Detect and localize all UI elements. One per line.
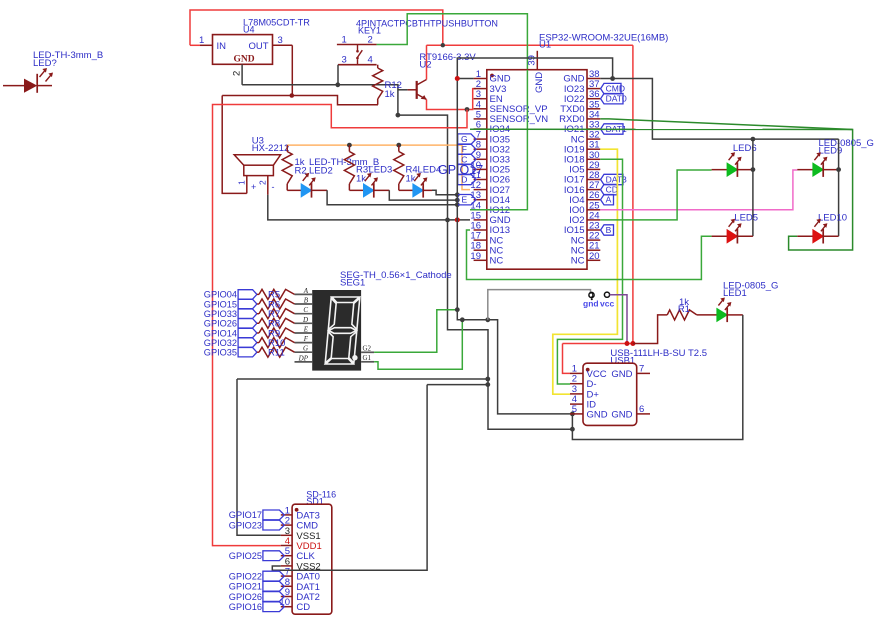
svg-text:C: C bbox=[461, 154, 467, 164]
resistor R7 1k bbox=[257, 309, 295, 320]
net flag GPIO21 at SD1 bbox=[229, 581, 285, 591]
svg-text:5: 5 bbox=[572, 404, 577, 415]
resistor R1 1k bbox=[633, 297, 717, 344]
svg-text:OUT: OUT bbox=[249, 41, 269, 52]
svg-text:DP: DP bbox=[298, 354, 309, 362]
svg-text:GPIO35: GPIO35 bbox=[204, 348, 237, 358]
svg-text:LED3: LED3 bbox=[369, 165, 393, 176]
junction GND corner bbox=[396, 113, 401, 118]
svg-text:2: 2 bbox=[232, 71, 243, 76]
svg-text:NC: NC bbox=[571, 256, 585, 267]
junction GND LED6 branch bbox=[751, 137, 756, 142]
SD1 pin 2 CMD bbox=[281, 516, 318, 532]
SD1 pin 5 CLK bbox=[281, 546, 316, 562]
pushbutton KEY1 symbol bbox=[337, 35, 377, 66]
net flag GPIO04 bbox=[204, 290, 257, 300]
junction GND at speaker run bbox=[445, 218, 450, 223]
connector USB1 body bbox=[583, 363, 637, 425]
junction GND rail1 bbox=[485, 377, 490, 382]
U1 pin 33 IO21 bbox=[564, 120, 600, 136]
net flag GPIO16 at SD1 bbox=[229, 602, 285, 612]
USB1 pin 1 VCC bbox=[570, 363, 607, 380]
svg-text:R2: R2 bbox=[295, 166, 307, 177]
svg-text:F: F bbox=[303, 335, 309, 343]
wire speaker pin2 to GND / ESP32 pin15 bbox=[268, 195, 470, 220]
net flag A pin26 bbox=[601, 195, 614, 205]
U1 pin 15 GND bbox=[470, 210, 510, 226]
U1 pin 30 IO18 bbox=[564, 150, 600, 166]
svg-text:CD: CD bbox=[606, 185, 618, 195]
wire SEG1 G2 to GND bbox=[374, 310, 457, 353]
U1 pin 38 GND bbox=[563, 69, 600, 85]
svg-text:39: 39 bbox=[527, 55, 538, 66]
svg-text:GND: GND bbox=[611, 409, 632, 420]
net flag GPIO17 pin10 bbox=[458, 164, 476, 174]
junction LED3 GND bbox=[455, 198, 460, 203]
net flag GPIO32 bbox=[204, 338, 257, 348]
USB1 pin1 indicator dot bbox=[586, 368, 590, 372]
U1 pin 3 EN bbox=[474, 89, 503, 105]
svg-text:R1: R1 bbox=[678, 304, 690, 315]
net flag C pin9 bbox=[458, 154, 476, 164]
wire IO27 orange to LED resistors bbox=[287, 145, 470, 190]
junction GND bottom rail bbox=[570, 427, 575, 432]
speaker U3 symbol bbox=[234, 155, 280, 195]
U1 pin 1 GND bbox=[474, 69, 511, 85]
svg-text:U2: U2 bbox=[419, 60, 431, 71]
resistor R3 1k bbox=[344, 145, 368, 190]
wire +5V from U4 OUT to R12 bbox=[222, 96, 378, 105]
junction +5V rail bbox=[441, 43, 445, 47]
svg-text:GPIO23: GPIO23 bbox=[229, 520, 262, 530]
net flag GPIO33 bbox=[204, 309, 257, 319]
svg-text:DAT3: DAT3 bbox=[606, 175, 627, 185]
svg-text:1k: 1k bbox=[356, 174, 366, 185]
wire GND LED6/LED5 vertical bbox=[752, 139, 754, 236]
wire U2 emitter to 3V3 / ESP32 pin2 bbox=[427, 89, 477, 110]
net flag G pin7 bbox=[458, 134, 476, 144]
junction orange R4 bbox=[396, 143, 401, 148]
net flag F pin8 bbox=[458, 144, 476, 154]
U1 pin 36 IO22 bbox=[564, 89, 600, 105]
LED LED6 bbox=[712, 152, 753, 177]
svg-text:GND: GND bbox=[534, 72, 545, 93]
U1 pin 14 IO12 bbox=[470, 200, 510, 216]
resistor R10 1k bbox=[257, 338, 295, 349]
resistor R12 1k bbox=[373, 65, 402, 105]
wire GND down to SD VSS2 bbox=[272, 385, 427, 571]
USB1 pin 5 GND bbox=[570, 404, 608, 421]
junction GND USB pin5 bbox=[570, 412, 575, 417]
svg-text:-: - bbox=[272, 182, 275, 192]
svg-text:R11: R11 bbox=[268, 348, 285, 359]
resistor R8 1k bbox=[257, 318, 295, 329]
wire LED3 cathode to GND bbox=[389, 190, 457, 200]
net flag DAT1 pin33 bbox=[601, 124, 627, 134]
svg-text:GND: GND bbox=[611, 369, 632, 380]
junction GND pin38 bbox=[610, 76, 615, 81]
svg-text:A: A bbox=[303, 287, 309, 295]
net flag GPIO17 at SD1 bbox=[229, 510, 285, 520]
svg-text:GPIO15: GPIO15 bbox=[204, 299, 237, 309]
svg-text:1: 1 bbox=[342, 35, 347, 46]
U1 pin 24 IO2 bbox=[569, 210, 600, 226]
svg-text:2: 2 bbox=[368, 35, 373, 46]
U1 pin 32 NC bbox=[571, 130, 601, 146]
svg-text:C: C bbox=[303, 306, 308, 314]
net flag GPIO25 at SD1 bbox=[229, 551, 285, 561]
U1 pin 22 NC bbox=[571, 231, 601, 247]
LED LED9 bbox=[797, 152, 838, 177]
svg-text:3: 3 bbox=[278, 35, 283, 46]
svg-text:LED10: LED10 bbox=[818, 213, 847, 224]
U1 pin 18 NC bbox=[470, 241, 503, 257]
wire GND down to SD VSS1 bbox=[237, 379, 281, 535]
net flag DAT0 pin36 bbox=[601, 94, 627, 104]
SD1 pin 8 DAT1 bbox=[281, 577, 320, 593]
wire vcc purple to USB VCC bbox=[610, 295, 627, 344]
svg-text:G: G bbox=[303, 345, 308, 353]
USB1 pin 3 D+ bbox=[570, 384, 599, 401]
svg-text:NC: NC bbox=[490, 256, 504, 267]
svg-text:19: 19 bbox=[470, 251, 481, 262]
svg-text:GND: GND bbox=[234, 55, 255, 65]
svg-text:G: G bbox=[461, 134, 468, 144]
SEG1 pin E bbox=[295, 326, 313, 334]
wire 3V3 to SD VDD1 bbox=[213, 105, 468, 546]
U1 pin 19 NC bbox=[470, 251, 503, 267]
USB1 pin 6 GND bbox=[611, 404, 650, 421]
svg-text:1: 1 bbox=[199, 35, 204, 46]
U1 pin 10 IO25 bbox=[470, 160, 510, 176]
SEG1 pin D bbox=[295, 316, 313, 324]
SEG1 pin DP bbox=[295, 354, 313, 362]
wire U4 OUT down bbox=[291, 45, 293, 95]
U1 pin 11 IO26 bbox=[471, 170, 510, 186]
svg-text:B: B bbox=[304, 297, 309, 305]
junction GND gray tap bbox=[485, 317, 490, 322]
svg-text:E: E bbox=[462, 195, 468, 205]
resistor R5 1k bbox=[257, 289, 295, 300]
LED LED? symbol bbox=[3, 68, 53, 93]
SD1 pin 9 DAT2 bbox=[281, 587, 320, 603]
wire GND rail to SD VSS1 bbox=[237, 378, 488, 380]
svg-text:GPIO16: GPIO16 bbox=[229, 602, 262, 612]
svg-text:CD: CD bbox=[296, 602, 310, 613]
svg-text:GPIO14: GPIO14 bbox=[204, 328, 237, 338]
junction G1 GND bbox=[460, 317, 465, 322]
net flag E pin13 bbox=[458, 195, 476, 205]
junction VCC red bbox=[630, 341, 635, 346]
net flag GPIO15 bbox=[204, 299, 257, 309]
U1 pin 9 IO33 bbox=[474, 150, 511, 166]
display SEG1 digit segments bbox=[325, 297, 360, 364]
wire IO18 pin30 green to USB D- bbox=[557, 159, 622, 384]
U1 pin 13 IO14 bbox=[470, 190, 510, 206]
net flag GPIO26 at SD1 bbox=[229, 592, 285, 602]
USB1 pin 7 GND bbox=[611, 363, 650, 380]
resistor R11 1k bbox=[257, 347, 295, 358]
wire LED2 cathode to GND bbox=[327, 190, 457, 204]
svg-text:GPIO32: GPIO32 bbox=[204, 338, 237, 348]
SD1 pin 6 VSS2 bbox=[281, 556, 321, 572]
SEG1 pin G1 bbox=[361, 354, 374, 362]
wire IO19 pin31 yellow to USB D+ bbox=[553, 149, 618, 394]
regulator U4 body bbox=[213, 35, 273, 65]
svg-text:U1: U1 bbox=[539, 40, 551, 51]
svg-text:GPIO22: GPIO22 bbox=[229, 571, 262, 581]
svg-text:LED2: LED2 bbox=[309, 166, 333, 177]
svg-text:CMD: CMD bbox=[606, 84, 625, 94]
net flag GPIO14 bbox=[204, 328, 257, 338]
junction LED6 cathode bbox=[751, 167, 756, 172]
svg-text:D: D bbox=[302, 316, 308, 324]
wire VCC to USB pin1 horizontal bbox=[563, 343, 633, 345]
svg-text:GPIO17: GPIO17 bbox=[229, 510, 262, 520]
SEG1 pin G bbox=[295, 345, 313, 353]
wire +5V top rail bbox=[190, 10, 443, 45]
svg-text:ESP32-WROOM-32UE(16MB): ESP32-WROOM-32UE(16MB) bbox=[539, 33, 668, 44]
U1 pin 17 NC bbox=[470, 231, 503, 247]
junction G2 GND bbox=[455, 307, 460, 312]
U1 pin 8 IO32 bbox=[474, 140, 511, 156]
transistor U2 symbol bbox=[399, 80, 427, 100]
SD1 pin 10 CD bbox=[279, 597, 310, 613]
wire GND pin38 to LED cathodes bbox=[600, 79, 838, 140]
junction GND pin15 red bbox=[455, 217, 460, 222]
resistor R2 1k bbox=[282, 145, 306, 190]
svg-text:G2: G2 bbox=[363, 344, 372, 352]
svg-text:GPIO21: GPIO21 bbox=[229, 582, 262, 592]
svg-text:IN: IN bbox=[217, 41, 227, 52]
wire GND main rail bbox=[242, 85, 572, 429]
wire GND rail to SD VSS2 bbox=[427, 384, 488, 386]
net flag CD pin27 bbox=[601, 184, 618, 194]
svg-text:4: 4 bbox=[368, 55, 373, 66]
net flag GPIO23 at SD1 bbox=[229, 520, 285, 530]
junction LED2 GND bbox=[455, 202, 460, 207]
svg-text:20: 20 bbox=[589, 251, 600, 262]
svg-text:LED1: LED1 bbox=[723, 288, 747, 299]
USB1 pin 2 D- bbox=[570, 374, 597, 391]
U1 pin 7 IO35 bbox=[474, 130, 511, 146]
svg-text:G1: G1 bbox=[363, 354, 372, 362]
wire U2 collector to +5V rail bbox=[426, 45, 428, 79]
wire IO0 pin25 pink to LED9 bbox=[600, 170, 797, 210]
svg-text:GND: GND bbox=[587, 409, 608, 420]
svg-text:DAT0: DAT0 bbox=[606, 94, 627, 104]
U1 pin 31 IO19 bbox=[564, 140, 600, 156]
testpoint gnd bbox=[583, 292, 599, 308]
svg-text:vcc: vcc bbox=[600, 299, 614, 309]
U1 pin 4 SENSOR_VP bbox=[474, 99, 548, 115]
U4 pin 3 OUT bbox=[249, 35, 293, 52]
svg-text:LED?: LED? bbox=[33, 58, 57, 69]
U1 pin 34 RXD0 bbox=[559, 109, 600, 125]
wire LED1 cathode to GND loop bbox=[572, 315, 742, 440]
wire GND testpoint gray bbox=[488, 290, 591, 320]
junction LED4 GND bbox=[455, 192, 460, 197]
svg-text:GPIO26: GPIO26 bbox=[229, 592, 262, 602]
U4 pin 2 GND lead bbox=[232, 64, 243, 85]
display SEG1 decimal point bbox=[352, 355, 357, 360]
wire ESP32 pin1 GND bbox=[457, 78, 473, 80]
svg-text:3: 3 bbox=[342, 55, 347, 66]
U1 pin 6 IO34 bbox=[474, 120, 511, 136]
svg-text:6: 6 bbox=[639, 404, 644, 415]
U1 pin 25 IO0 bbox=[569, 200, 600, 216]
svg-text:HX-2212: HX-2212 bbox=[252, 143, 289, 154]
display SEG1 body bbox=[312, 290, 361, 371]
testpoint vcc bbox=[600, 292, 614, 308]
svg-text:+: + bbox=[251, 182, 256, 192]
junction GND pin1 red bbox=[455, 76, 460, 81]
connector SD1 body bbox=[292, 504, 332, 614]
USB1 pin 4 ID bbox=[570, 394, 596, 411]
svg-text:E: E bbox=[303, 326, 309, 334]
resistor R4 1k bbox=[394, 145, 418, 190]
net flag GPIO35 bbox=[204, 348, 257, 358]
SEG1 pin C bbox=[295, 306, 313, 314]
svg-text:gnd: gnd bbox=[583, 299, 599, 309]
U1 pin 37 IO23 bbox=[564, 79, 600, 95]
wire KEY1 pin2 green to IO12 bbox=[377, 14, 528, 210]
wire GND to USB pin5 bbox=[457, 310, 570, 414]
wire KEY1 pin3 to GND bbox=[337, 65, 339, 85]
wire LED4 cathode to GND bbox=[432, 190, 457, 195]
svg-text:D: D bbox=[461, 175, 467, 185]
net flag B pin23 bbox=[601, 225, 614, 235]
U1 pin 26 IO4 bbox=[569, 190, 600, 206]
svg-text:1k: 1k bbox=[406, 174, 416, 185]
junction VCC purple bbox=[625, 341, 630, 346]
wire +5V to speaker pin1 bbox=[222, 96, 247, 194]
junction GND / KEY1 bbox=[335, 82, 340, 87]
U1 pin 35 TXD0 bbox=[560, 99, 600, 115]
wire VCC vertical right of ESP32 bbox=[632, 45, 634, 343]
junction +5V at U4 OUT bbox=[290, 93, 295, 98]
junction GND rail2 bbox=[485, 382, 490, 387]
U1 pin 28 IO17 bbox=[564, 170, 600, 186]
IC U1 body bbox=[487, 70, 587, 270]
U1 pin 2 3V3 bbox=[474, 79, 507, 95]
svg-text:GPIO04: GPIO04 bbox=[204, 290, 237, 300]
svg-text:GPIO33: GPIO33 bbox=[204, 309, 237, 319]
SD1 pin 1 DAT3 bbox=[281, 505, 320, 521]
U4 pin 1 IN bbox=[190, 35, 226, 52]
svg-text:U4: U4 bbox=[243, 25, 255, 35]
wire GND crossing SD1 to VSS2 rail bbox=[281, 569, 427, 571]
U1 pin 29 IO5 bbox=[569, 160, 600, 176]
svg-text:1k: 1k bbox=[385, 89, 395, 100]
SD1 pin 4 VDD1 bbox=[281, 536, 322, 552]
net flag GPIO22 at SD1 bbox=[229, 571, 285, 581]
wire IO34 pin6 long green bbox=[470, 128, 853, 130]
net flag GPIO26 bbox=[204, 319, 257, 329]
wire +5V horizontal to right bbox=[427, 44, 633, 46]
SD1 pin 7 DAT0 bbox=[281, 567, 320, 583]
junction orange R3 bbox=[347, 143, 352, 148]
U1 pin 21 NC bbox=[571, 241, 601, 257]
wire KEY1 green inside U1 to pin14 bbox=[470, 70, 527, 210]
svg-text:B: B bbox=[606, 225, 612, 235]
resistor R9 1k bbox=[257, 328, 295, 339]
SD1 pin1 indicator dot bbox=[295, 508, 299, 512]
SEG1 pin B bbox=[295, 297, 313, 305]
U1 pin 20 NC bbox=[571, 251, 601, 267]
wire RXD0 pin34 diagonal to LED10 bbox=[600, 119, 852, 250]
svg-text:1: 1 bbox=[237, 180, 247, 185]
U1 pin1 indicator dot bbox=[490, 74, 494, 78]
LED LED5 bbox=[712, 219, 753, 244]
net flag CMD pin37 bbox=[601, 83, 625, 93]
net flag D pin11 bbox=[458, 174, 476, 184]
svg-text:GPIO26: GPIO26 bbox=[204, 319, 237, 329]
wire IO13 pin16 green to LED5 bbox=[467, 230, 712, 280]
svg-text:SEG1: SEG1 bbox=[340, 278, 365, 289]
U1 pin 23 IO15 bbox=[564, 221, 600, 237]
U1 pin 12 IO27 bbox=[470, 180, 510, 196]
SD1 pin 3 VSS1 bbox=[281, 526, 321, 542]
wire GND vertical x457 to pin38 bbox=[457, 58, 612, 310]
wire SEG1 G1 to GND bbox=[374, 320, 462, 370]
junction 3V3 emitter bbox=[465, 107, 470, 112]
U1 pin 5 SENSOR_VN bbox=[474, 109, 549, 125]
wire IO2 pin24 green to LED6 bbox=[600, 170, 711, 220]
svg-text:2: 2 bbox=[258, 180, 268, 185]
wire VCC into USB pin1 bbox=[563, 344, 571, 374]
wire GND LED9/LED10 vertical bbox=[838, 139, 840, 236]
SEG1 pin F bbox=[295, 335, 313, 343]
U1 pin 16 IO13 bbox=[470, 221, 510, 237]
svg-text:7: 7 bbox=[639, 363, 644, 374]
svg-text:A: A bbox=[606, 195, 612, 205]
svg-text:F: F bbox=[462, 144, 467, 154]
svg-text:GPIO25: GPIO25 bbox=[229, 551, 262, 561]
LED LED1 bbox=[717, 298, 743, 323]
SEG1 pin A bbox=[295, 287, 313, 295]
U1 pin 27 IO16 bbox=[564, 180, 600, 196]
U1 pin 39 GND top bbox=[527, 51, 546, 93]
junction LED9 cathode bbox=[836, 167, 841, 172]
SEG1 pin G2 bbox=[361, 344, 374, 352]
svg-text:LED5: LED5 bbox=[734, 213, 758, 224]
LED LED10 bbox=[797, 219, 838, 244]
resistor R6 1k bbox=[257, 299, 295, 310]
net flag DAT3 pin28 bbox=[601, 174, 627, 184]
